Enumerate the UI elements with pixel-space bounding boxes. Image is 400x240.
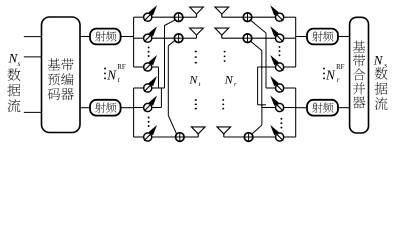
svg-text:s: s [384, 62, 387, 70]
svg-text:N: N [224, 72, 234, 86]
svg-text:s: s [18, 60, 21, 68]
svg-text:t: t [199, 81, 201, 88]
svg-text:t: t [118, 76, 121, 84]
svg-text:r: r [234, 81, 237, 88]
svg-text:r: r [337, 76, 340, 84]
svg-text:N: N [106, 67, 117, 82]
svg-text:N: N [325, 67, 336, 82]
svg-text:RF: RF [117, 64, 126, 71]
svg-text:RF: RF [336, 64, 345, 71]
svg-text:N: N [188, 72, 198, 86]
svg-text:N: N [373, 52, 384, 67]
